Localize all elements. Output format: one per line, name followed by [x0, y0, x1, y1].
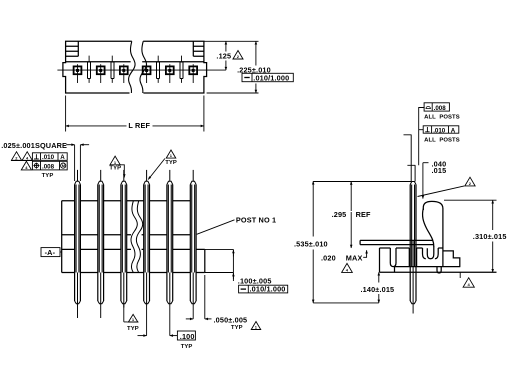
svg-text:.020: .020: [321, 254, 336, 263]
svg-text:1: 1: [170, 153, 173, 158]
svg-text:.125: .125: [216, 52, 231, 61]
svg-text:A: A: [451, 127, 456, 134]
svg-text:.050±.005: .050±.005: [214, 315, 248, 324]
svg-text:4: 4: [25, 165, 28, 170]
svg-text:ALL POSTS: ALL POSTS: [424, 115, 460, 121]
svg-text:4: 4: [468, 282, 471, 287]
svg-text:.010: .010: [433, 127, 446, 134]
svg-text:TYP: TYP: [231, 325, 243, 331]
svg-text:A: A: [60, 154, 65, 161]
svg-text:.010/1.000: .010/1.000: [250, 285, 286, 294]
svg-text:-A-: -A-: [45, 248, 56, 257]
svg-text:4: 4: [26, 155, 29, 160]
svg-text:MAX: MAX: [346, 254, 363, 263]
svg-text:2: 2: [469, 181, 472, 186]
svg-text:2: 2: [15, 155, 18, 160]
svg-text:.010/1.000: .010/1.000: [253, 73, 289, 82]
svg-text:TYP: TYP: [165, 160, 177, 166]
svg-text:.015: .015: [432, 166, 447, 175]
svg-text:1: 1: [255, 325, 258, 330]
svg-text:REF: REF: [356, 210, 371, 219]
svg-text:ALL POSTS: ALL POSTS: [424, 138, 460, 144]
svg-text:.100: .100: [180, 332, 195, 341]
svg-text:.310±.015: .310±.015: [473, 232, 507, 241]
svg-text:.295: .295: [332, 210, 347, 219]
svg-text:.008: .008: [434, 105, 447, 112]
svg-text:2: 2: [237, 54, 240, 59]
svg-text:.140±.015: .140±.015: [361, 285, 395, 294]
svg-text:1: 1: [132, 317, 135, 322]
svg-text:.025±.001SQUARE: .025±.001SQUARE: [1, 141, 67, 150]
svg-text:L REF: L REF: [128, 121, 150, 130]
svg-text:1: 1: [114, 160, 117, 165]
svg-text:POST NO 1: POST NO 1: [236, 216, 276, 225]
svg-text:TYP: TYP: [127, 326, 139, 332]
svg-text:TYP: TYP: [109, 166, 121, 172]
svg-text:TYP: TYP: [42, 173, 54, 179]
svg-text:.008: .008: [42, 163, 55, 170]
svg-text:TYP: TYP: [181, 344, 193, 350]
svg-text:.535±.010: .535±.010: [294, 239, 328, 248]
svg-text:.010: .010: [42, 154, 55, 161]
svg-text:4: 4: [346, 267, 349, 272]
